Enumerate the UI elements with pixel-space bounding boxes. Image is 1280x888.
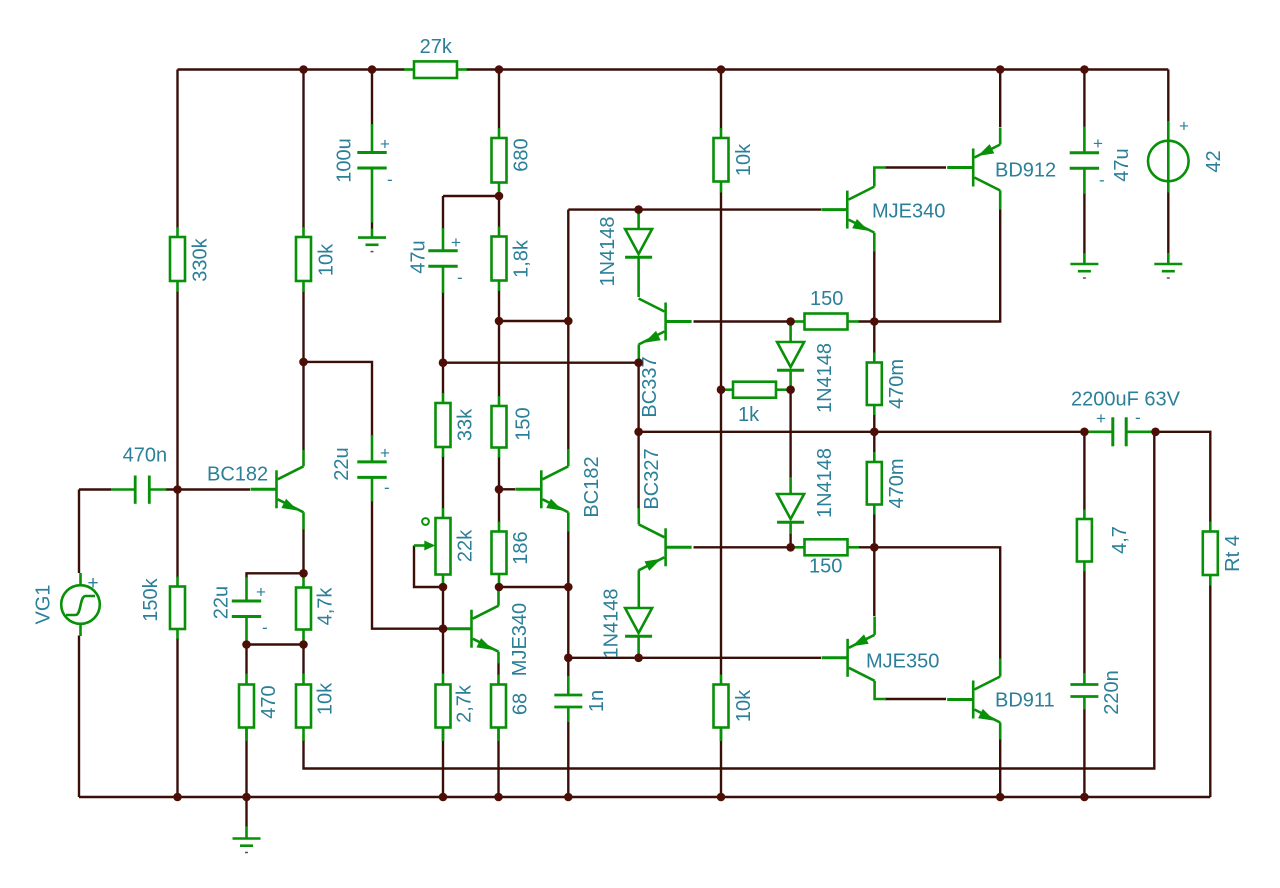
wire node to 22u (horizontal) [247, 573, 304, 578]
wire output to 4.7 resistor [1083, 432, 1085, 510]
transistor MJE340 (driver top) [821, 168, 945, 252]
wire output cap to Rt4 [1156, 432, 1211, 523]
junction 10k / BC182 collector / 22u [299, 358, 308, 367]
wire V+ top rail right segment [466, 68, 1168, 70]
junction pot wiper / 2,7k [439, 583, 448, 592]
junction V+ rail / 10k [299, 65, 308, 74]
wire 33k to pot [442, 456, 444, 509]
diode 1N4148 (lower mid) [777, 448, 836, 534]
wire 1n to ground rail [567, 721, 569, 797]
svg-text:+: + [380, 135, 390, 154]
svg-text:+: + [1096, 409, 1106, 428]
wire 470 column [245, 645, 247, 675]
wire BC337 emitter node to output rail [637, 363, 639, 432]
wire 220n to ground rail [1083, 709, 1085, 797]
wire bottom 10k to ground rail [720, 728, 722, 798]
wire 47u right column top [1083, 70, 1085, 128]
svg-text:22u: 22u [211, 586, 233, 619]
ground 42 source [1154, 253, 1182, 278]
ground 47u supply [1070, 253, 1098, 278]
svg-text:Rt 4: Rt 4 [1222, 535, 1244, 572]
wire MJE350 collector to BD911 base [885, 698, 946, 700]
svg-text:+: + [380, 444, 390, 463]
junction 4,7k / 10k node [299, 640, 308, 649]
svg-text:BC337: BC337 [639, 356, 661, 417]
resistor 150k [140, 577, 185, 640]
resistor 68 [491, 675, 532, 742]
wire 150 to emitter node [858, 320, 874, 322]
wire BC337 emitter node row [443, 362, 639, 364]
junction ground rail / 470 / ground [242, 793, 251, 802]
junction ground rail / 1n [564, 793, 573, 802]
svg-text:470m: 470m [886, 458, 908, 508]
svg-text:27k: 27k [420, 36, 453, 58]
resistor 33k [436, 393, 477, 457]
junction 1,8k / 150 [495, 317, 504, 326]
wire bias column to BC182 collector [567, 321, 569, 450]
capacitor 220n [1070, 670, 1123, 715]
svg-text:1N4148: 1N4148 [814, 448, 836, 518]
junction BC182 emitter / 4,7k / 22u [299, 569, 308, 578]
capacitor 47u (supply) [1070, 127, 1133, 195]
svg-text:150: 150 [809, 556, 842, 578]
junction 680 / 1,8k / 47u [495, 192, 504, 201]
wire BC337 base [694, 320, 791, 322]
wire diode to BC327 base node [789, 533, 791, 547]
svg-text:BC327: BC327 [641, 448, 663, 509]
junction ground rail / BD911 emitter [996, 793, 1005, 802]
junction V+ rail / BD912 emitter [996, 65, 1005, 74]
wire V+ top rail left segment [178, 68, 406, 70]
junction ground rail / 150k [173, 793, 182, 802]
wire BC182 base node to 186 [498, 489, 500, 522]
voltage source 42 [1148, 117, 1225, 193]
wire 470m to output rail [873, 414, 875, 432]
wire 680 column top [498, 70, 500, 130]
wire pot wiper L [414, 546, 443, 588]
svg-text:47u: 47u [408, 240, 430, 273]
svg-text:470: 470 [258, 685, 280, 718]
junction V+ rail / 100u [368, 65, 377, 74]
junction 2200uF- / feedback [1151, 428, 1160, 437]
junction input node [173, 485, 182, 494]
resistor 10k (bias lower) [714, 675, 756, 742]
wire pot node to base node [442, 587, 444, 629]
svg-text:10k: 10k [315, 682, 337, 715]
wire 330k to input node [176, 291, 178, 578]
ground main [233, 826, 261, 853]
svg-text:10k: 10k [316, 243, 338, 276]
junction MJE340 base node [439, 624, 448, 633]
svg-text:BC182: BC182 [207, 464, 268, 486]
resistor 470m (upper) [867, 353, 908, 416]
svg-text:1N4148: 1N4148 [597, 216, 619, 286]
wire 42 source top [1167, 70, 1169, 123]
svg-text:220n: 220n [1101, 670, 1123, 715]
svg-text:4,7: 4,7 [1109, 526, 1131, 554]
wire collector node to 22u cap (horizontal) [304, 362, 373, 436]
wire MJE350 emitter up [873, 547, 875, 616]
svg-text:100u: 100u [334, 138, 356, 183]
wire node to 33k [442, 363, 444, 394]
wire 1.8k to current node [498, 290, 500, 321]
wire 2.7k to ground rail [442, 728, 444, 798]
junction 1k / 10k column [717, 385, 726, 394]
svg-text:2,7k: 2,7k [454, 684, 476, 723]
wire 10k right column (rail to 10k) [720, 70, 722, 130]
resistor 470m (lower) [867, 452, 908, 515]
junction V+ rail / 47u [1080, 65, 1089, 74]
resistor 10k (BC182 collector) [296, 227, 338, 292]
svg-text:470n: 470n [123, 445, 168, 467]
junction ground rail / 10k [717, 793, 726, 802]
svg-text:BC182: BC182 [581, 456, 603, 517]
svg-text:47u: 47u [1111, 148, 1133, 181]
wire 150k to ground rail [176, 638, 178, 797]
potentiometer 22k [414, 508, 477, 587]
wire BC182 emitter to 4.7k node [302, 529, 304, 573]
capacitor 22u (lag compensation) [331, 435, 390, 502]
wire VG1 top to input row [78, 490, 80, 574]
wire 47u- to node [442, 292, 444, 363]
junction BC327 base / 150 / 1N4148 [786, 543, 795, 552]
wire 22u- down to base row [372, 501, 444, 629]
junction output rail / 2200uF+ [1080, 428, 1089, 437]
wire base node to 2.7k [442, 629, 444, 674]
svg-text:10k: 10k [733, 143, 755, 176]
svg-text:-: - [387, 170, 393, 189]
junction BC337 base / 150 / 1N4148 [786, 317, 795, 326]
svg-text:+: + [1179, 117, 1189, 136]
resistor 10k (bias upper) [714, 128, 756, 193]
svg-text:33k: 33k [455, 408, 477, 441]
wire 186 node horizontal [499, 586, 568, 588]
wire node to 150 vertical [498, 321, 500, 397]
svg-text:1N4148: 1N4148 [601, 588, 623, 658]
transistor BC327 [639, 448, 692, 608]
svg-text:-: - [1135, 408, 1141, 427]
junction MJE350 emitter / 150 / 470m / BD911 collector [870, 543, 879, 552]
wire 10k bottom column upper [302, 645, 304, 675]
svg-text:10k: 10k [733, 689, 755, 722]
diode 1N4148 (upper mid) [777, 322, 836, 414]
svg-text:+: + [1093, 134, 1103, 153]
resistor 150 (upper) [791, 288, 859, 330]
junction 47u- / 33k node [439, 358, 448, 367]
resistor 330k [170, 227, 212, 292]
wire BD912 collector down [874, 209, 1000, 322]
wire VG1 bottom to ground rail [78, 636, 80, 798]
transistor MJE350 (driver bottom) [822, 617, 940, 700]
wire bias column down [567, 210, 569, 321]
transistor BC337 [639, 299, 692, 418]
junction 1k / 1N4148 cathode [786, 385, 795, 394]
resistor 470 [239, 674, 280, 742]
voltage source VG1 [33, 573, 100, 636]
junction output rail / BC327 [634, 428, 643, 437]
svg-text:-: - [1099, 171, 1105, 190]
wire bias top row [568, 208, 821, 210]
wire BD912 emitter to rail [999, 70, 1001, 128]
junction BC182 emitter / 1n node [564, 654, 573, 663]
wire MJE350 base row [568, 657, 821, 659]
svg-text:BD911: BD911 [995, 690, 1055, 712]
wire ground rail [79, 796, 1210, 798]
transistor BD911 [947, 659, 1054, 740]
resistor 2,7k [436, 674, 476, 742]
resistor 1k [721, 382, 791, 426]
capacitor 100u [334, 124, 393, 223]
svg-text:4,7k: 4,7k [315, 587, 337, 626]
wire 1n column [567, 658, 569, 677]
resistor 10k (feedback) [296, 674, 337, 742]
junction V+ rail / 680 [495, 65, 504, 74]
junction 1N4148 cathode / MJE350 base row [634, 654, 643, 663]
wire 68 column [497, 663, 499, 675]
junction BC337 emitter / output node [634, 358, 643, 367]
wire 100u column top [371, 70, 373, 126]
svg-text:1N4148: 1N4148 [814, 343, 836, 413]
wire 47u top segment [442, 196, 444, 229]
junction node to 186 row [564, 583, 573, 592]
capacitor 1n [554, 676, 608, 722]
wire output rail [639, 431, 1085, 433]
svg-text:680: 680 [511, 138, 533, 171]
wire output rail to 470m lower [873, 432, 875, 453]
transistor BC182 input [207, 450, 304, 530]
svg-text:42: 42 [1203, 150, 1225, 172]
wire current node horizontal [499, 320, 568, 322]
wire input row VG1 to 470n [79, 488, 111, 490]
svg-text:+: + [451, 233, 461, 252]
ground 100u [358, 229, 386, 252]
svg-text:MJE350: MJE350 [866, 651, 939, 673]
svg-text:150: 150 [513, 407, 535, 440]
capacitor 470n [111, 445, 167, 504]
resistor 150 (vertical) [492, 396, 535, 458]
wire BD911 collector up [874, 547, 1000, 659]
svg-text:-: - [457, 268, 463, 287]
wire 10k column (rail to 10k) [302, 70, 304, 229]
capacitor 47u (bootstrap) [408, 228, 463, 293]
resistor Rt 4 [1203, 522, 1244, 586]
svg-text:VG1: VG1 [33, 584, 55, 624]
wire main ground stem [245, 797, 247, 827]
wire input row 470n to BC182 base [166, 488, 251, 490]
svg-text:MJE340: MJE340 [872, 201, 945, 223]
wire 680 to 1.8k [498, 196, 500, 228]
svg-text:22u: 22u [331, 447, 353, 480]
wire BC182 emitter down [567, 531, 569, 587]
svg-text:470m: 470m [886, 359, 908, 409]
wire Rt4 to ground rail [1209, 585, 1211, 797]
wire 22u- to 470 node [247, 643, 304, 645]
wire node to MJE350 base node [567, 587, 569, 658]
junction ground rail / 68 [494, 793, 503, 802]
svg-text:150: 150 [810, 288, 843, 310]
resistor 1,8k [492, 227, 533, 292]
diode 1N4148 (bottom) [601, 588, 653, 658]
wire 680 node to 47u (horizontal) [443, 195, 499, 197]
junction output rail / 470m [870, 428, 879, 437]
junction 22u- / 470 [242, 640, 251, 649]
junction ground rail / 220n [1080, 793, 1089, 802]
svg-text:330k: 330k [190, 237, 212, 281]
diode 1N4148 (top) [597, 210, 652, 297]
wire 150 to BC182 base node [498, 457, 500, 490]
svg-text:-: - [262, 618, 268, 637]
svg-text:MJE340: MJE340 [509, 603, 531, 676]
wire feedback from 10k [304, 432, 1155, 769]
wire emitter node to 470m [873, 322, 875, 354]
wire 150 to emitter node lower [858, 546, 874, 548]
resistor 4,7k [296, 574, 337, 645]
svg-text:2200uF 63V: 2200uF 63V [1071, 389, 1181, 411]
wire 10k right column long [720, 192, 722, 390]
wire 10k to BC182 collector [302, 291, 304, 450]
svg-text:1n: 1n [586, 690, 608, 712]
wire BC327 base [694, 546, 791, 548]
wire 47u right to ground [1083, 193, 1085, 254]
junction MJE340 emitter / 150 / 470m / BD912 collector [870, 317, 879, 326]
wire MJE340 emitter down [873, 251, 875, 322]
transistor BC182 (VAS cascode) [515, 449, 603, 532]
wire 470m lower to node [873, 514, 875, 548]
wire 100u- to ground [371, 222, 373, 229]
wire diode chain mid [789, 390, 791, 478]
capacitor 22u (emitter) [211, 577, 268, 645]
wire 68 to ground rail [497, 728, 499, 798]
junction 186 / MJE340 collector [495, 583, 504, 592]
wire MJE340 collector to BD912 base [885, 166, 946, 168]
svg-text:1,8k: 1,8k [511, 239, 533, 278]
wire BC337 emitter lead [637, 345, 640, 364]
wire 1k node to bottom 10k [720, 390, 722, 675]
wire 470 to ground rail [245, 728, 247, 798]
svg-text:186: 186 [510, 531, 532, 564]
resistor 27k [404, 36, 467, 78]
resistor 680 [492, 128, 533, 196]
svg-text:+: + [256, 583, 266, 602]
resistor 150 (lower) [791, 539, 859, 577]
svg-text:-: - [384, 478, 390, 497]
junction BC182 base / 150-186 node [495, 485, 504, 494]
wire BC182 base stub [499, 488, 515, 490]
wire BD911 emitter to ground rail [999, 739, 1001, 797]
capacitor 2200uF 63V [1071, 389, 1181, 447]
transistor BD912 [947, 128, 1056, 210]
wire 4.7 to 220n [1083, 571, 1085, 675]
svg-text:150k: 150k [140, 577, 162, 621]
svg-text:22k: 22k [455, 529, 477, 562]
svg-text:BD912: BD912 [995, 160, 1056, 182]
wire BC327 collector to output rail [637, 432, 639, 509]
junction current source node [564, 317, 573, 326]
transistor MJE340 (VAS) [446, 588, 532, 677]
junction V+ rail / 10k bias [717, 65, 726, 74]
resistor 4,7 [1077, 510, 1131, 572]
svg-text:+: + [88, 573, 99, 594]
resistor 186 [492, 522, 533, 588]
svg-text:1k: 1k [738, 404, 760, 426]
wire 42 source bottom [1167, 192, 1169, 254]
junction ground rail / 2,7k [439, 793, 448, 802]
svg-text:68: 68 [510, 693, 532, 715]
wire left bias column top (rail to 330k) [176, 70, 178, 229]
junction bias row / 1N4148 anode [634, 205, 643, 214]
